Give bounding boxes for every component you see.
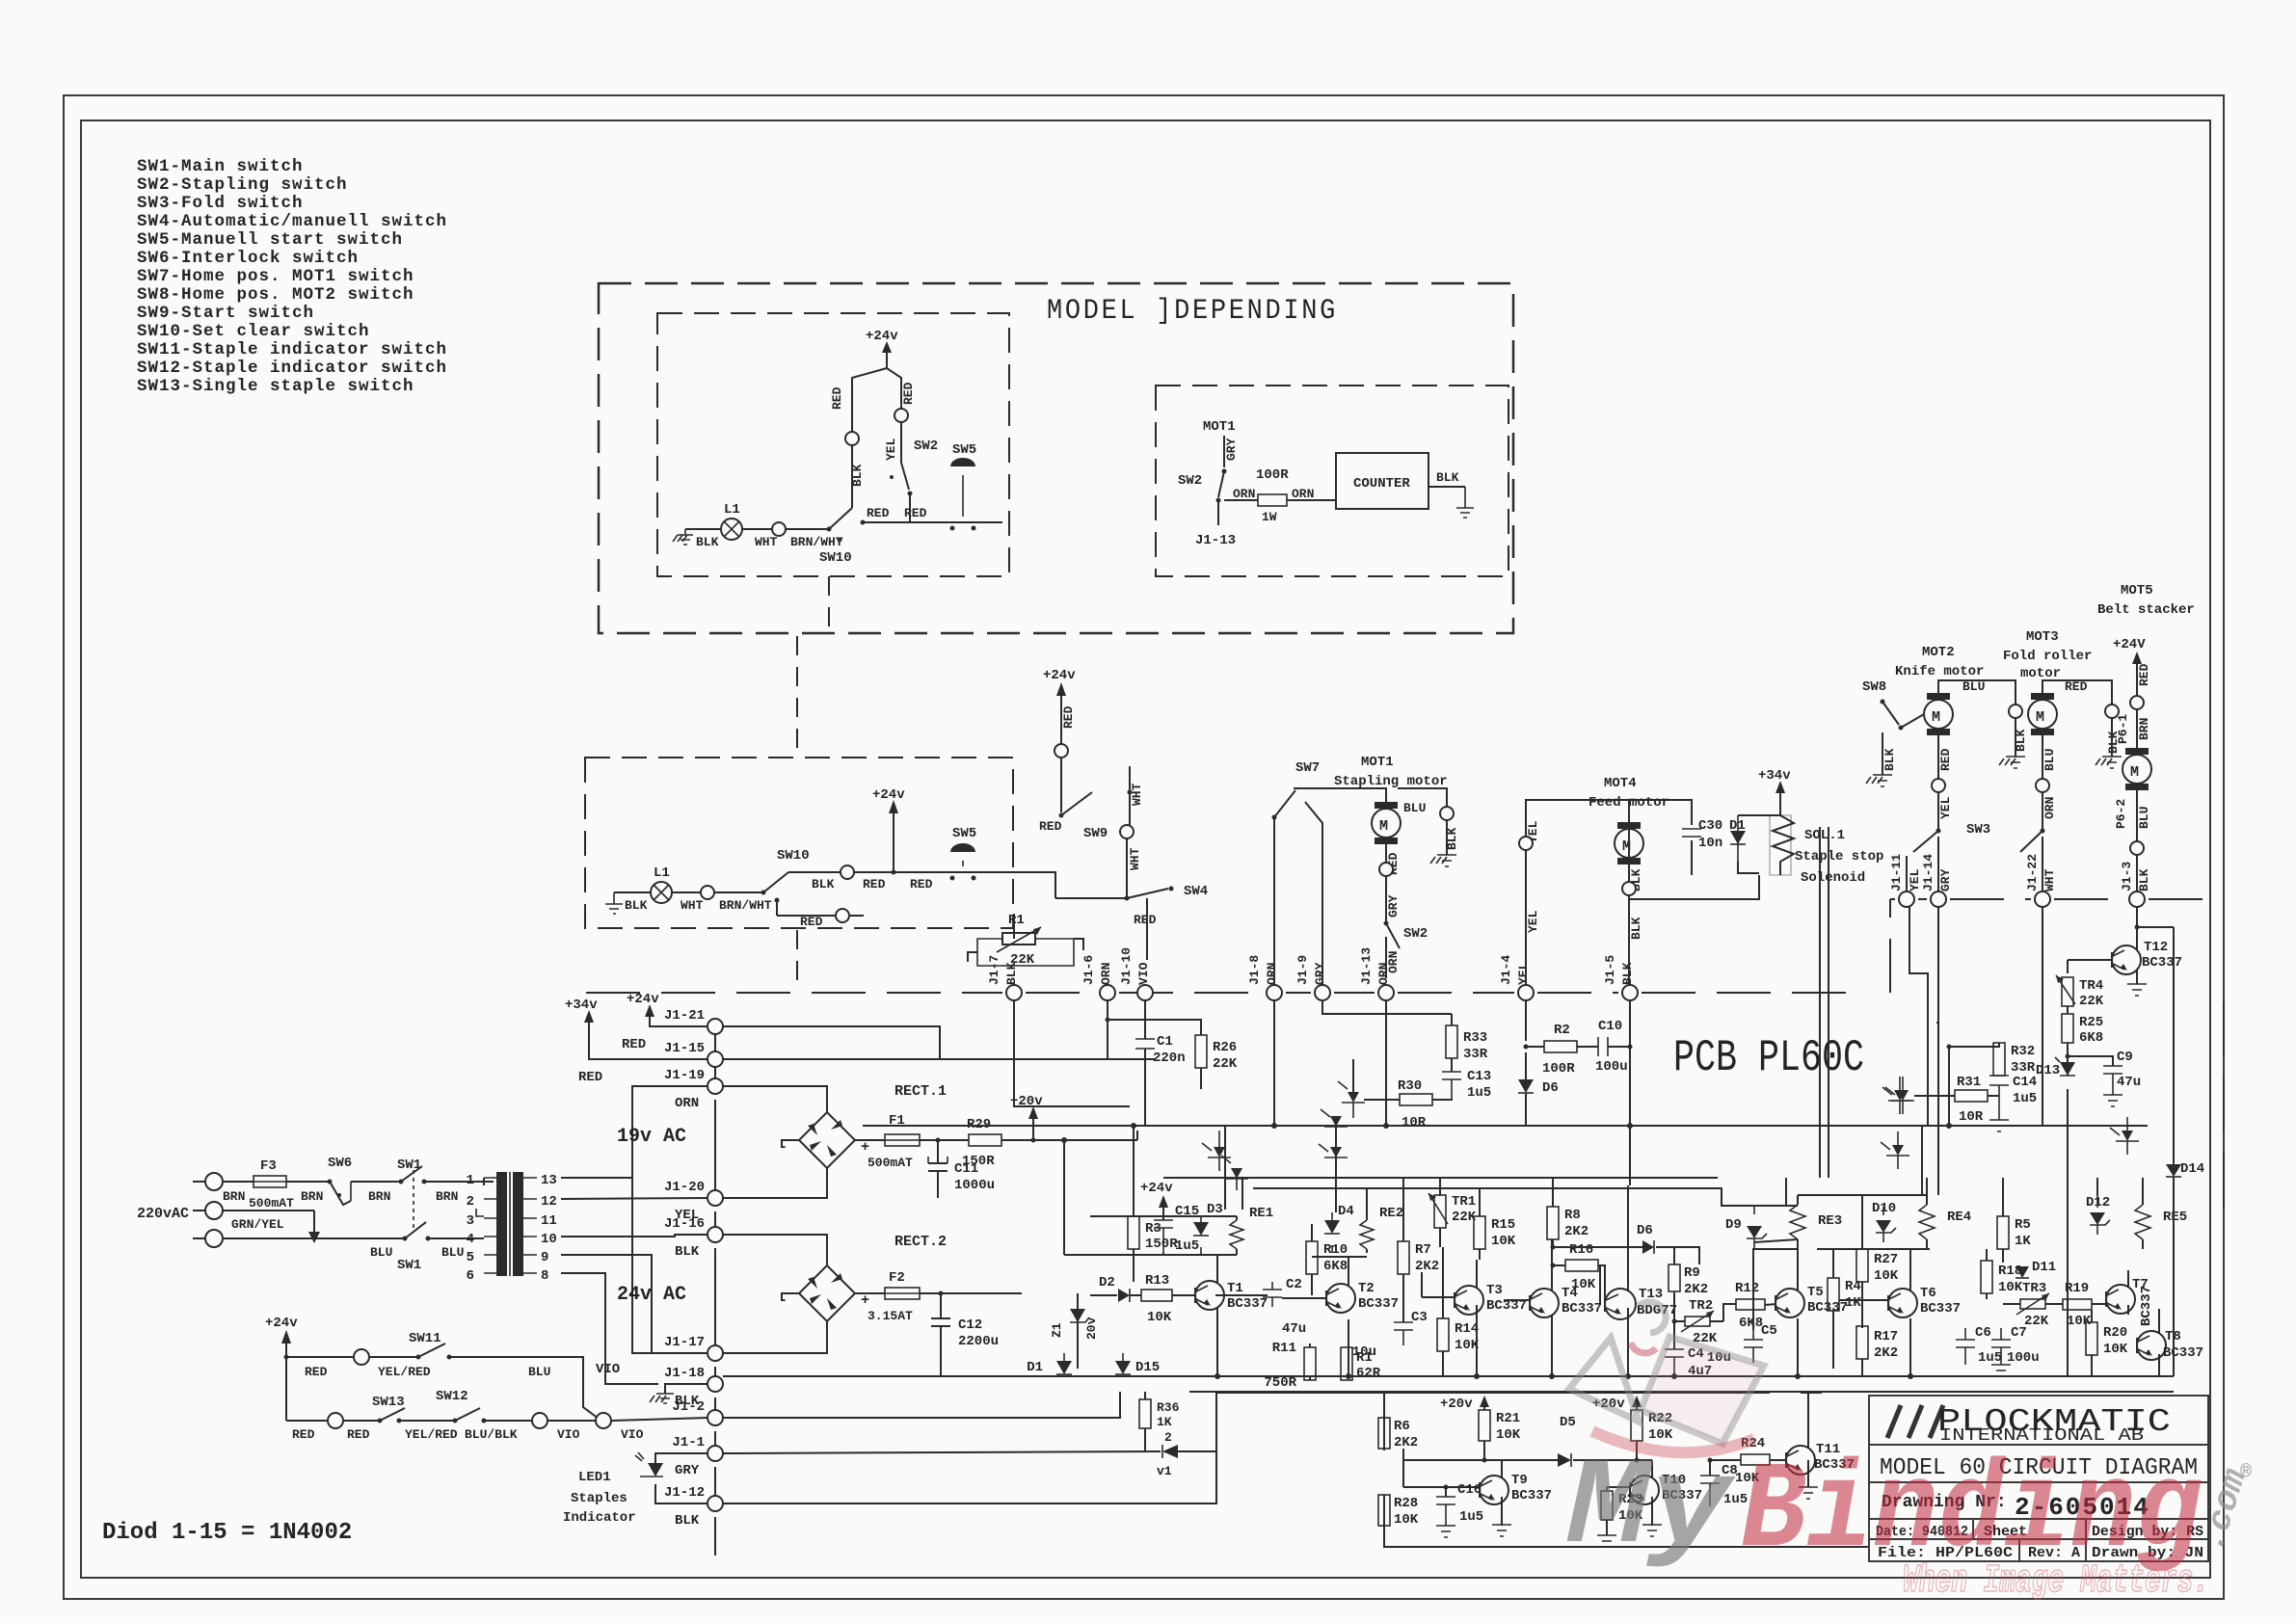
svg-text:C15: C15 xyxy=(1175,1204,1199,1219)
svg-text:C30: C30 xyxy=(1698,818,1722,834)
wire T6 base xyxy=(1817,1249,1930,1300)
title block frame xyxy=(1869,1396,2208,1561)
svg-text:1: 1 xyxy=(467,1173,474,1188)
solenoid SOL1 xyxy=(1758,768,1883,886)
variable resistor TR2 22K xyxy=(1672,1298,1724,1346)
svg-text:TR3: TR3 xyxy=(2022,1281,2046,1296)
svg-text:SW6: SW6 xyxy=(328,1156,352,1171)
thyristor pair xyxy=(1321,1059,1365,1140)
svg-text:47u: 47u xyxy=(2117,1075,2141,1090)
junction dots xyxy=(1061,1123,1952,1379)
switch SW1 lower xyxy=(397,1222,484,1273)
svg-text:BLU: BLU xyxy=(1962,679,1985,694)
wire to J1-2 xyxy=(611,1418,708,1421)
resistor R20 10K xyxy=(2086,1310,2128,1376)
wire xyxy=(351,1181,399,1183)
svg-text:100R: 100R xyxy=(1256,467,1289,483)
svg-text:YEL/RED: YEL/RED xyxy=(378,1365,431,1379)
plockmatic logo xyxy=(1887,1404,2171,1446)
wire BLU branch xyxy=(1938,680,2016,705)
ground T12 xyxy=(2127,984,2147,996)
svg-text:RECT.1: RECT.1 xyxy=(894,1083,947,1100)
resistor R8 2K2 xyxy=(1547,1178,1589,1247)
svg-text:D5: D5 xyxy=(1560,1415,1576,1430)
connector circle xyxy=(2009,705,2022,718)
svg-text:1u5: 1u5 xyxy=(1978,1350,2002,1366)
svg-text:GRY: GRY xyxy=(1386,894,1401,918)
variable resistor TR4 22K xyxy=(2056,975,2104,1009)
wire MOT1 bottom chain xyxy=(1385,844,1387,978)
MOT3 fold roller motor xyxy=(2003,629,2092,735)
svg-text:ORN: ORN xyxy=(1292,487,1314,501)
diode D6 horizontal xyxy=(1551,1223,1700,1264)
wire verticals right side xyxy=(1628,907,2042,1195)
resistor R24 10K xyxy=(1710,1436,1785,1486)
svg-text:R4: R4 xyxy=(1845,1279,1861,1294)
J1-20 connector xyxy=(664,1180,723,1223)
resistor R9 2K2 xyxy=(1669,1247,1708,1320)
diode D14 xyxy=(2166,927,2204,1376)
wire J1-8 vertical xyxy=(1273,1000,1275,1126)
svg-text:BLU: BLU xyxy=(2137,807,2151,829)
svg-text:11: 11 xyxy=(541,1213,557,1229)
bus segment upper xyxy=(1163,1178,1754,1206)
ground xyxy=(673,529,693,545)
wire row2 xyxy=(863,493,957,522)
svg-text:T12: T12 xyxy=(2144,940,2168,955)
svg-text:R26: R26 xyxy=(1213,1040,1237,1055)
PCB boundary dashed line xyxy=(586,992,1856,994)
J1-4 connector xyxy=(1499,955,1534,1000)
wire SW4 to J1-10 xyxy=(1146,898,1148,960)
svg-text:BRN: BRN xyxy=(436,1189,458,1204)
svg-text:GRY: GRY xyxy=(1313,962,1327,985)
svg-text:2200u: 2200u xyxy=(958,1334,999,1349)
wire xyxy=(920,1139,969,1141)
wire xyxy=(685,528,721,530)
svg-text:RE4: RE4 xyxy=(1947,1210,1971,1225)
diode D13 xyxy=(2036,1054,2075,1377)
wire xyxy=(742,528,772,530)
resistor R27 10K xyxy=(1856,1195,1899,1328)
svg-text:T6: T6 xyxy=(1920,1286,1936,1301)
switch SW10 xyxy=(761,848,810,903)
svg-text:ORN: ORN xyxy=(1265,963,1279,985)
winding loop pins 3 xyxy=(476,1209,484,1216)
+24v arrow PCB xyxy=(1140,1181,1173,1216)
svg-text:P6-2: P6-2 xyxy=(2114,799,2128,829)
svg-text:500mAT: 500mAT xyxy=(868,1156,913,1170)
zener Z1 20v xyxy=(1050,1293,1099,1369)
model depending outer dashed box xyxy=(599,283,1513,633)
svg-text:COUNTER: COUNTER xyxy=(1353,476,1410,492)
svg-text:RED: RED xyxy=(867,506,890,520)
svg-text:SW5: SW5 xyxy=(952,826,976,841)
svg-text:ORN: ORN xyxy=(2042,797,2057,819)
wire J1-10 tail xyxy=(1144,1051,1146,1126)
switch SW6 xyxy=(328,1156,353,1205)
connector circle xyxy=(1440,807,1454,820)
wire thyristor right3 xyxy=(2110,1117,2139,1155)
wire BLU xyxy=(449,1357,599,1419)
resistor 100R 1W xyxy=(1256,467,1289,524)
svg-text:R28: R28 xyxy=(1394,1496,1418,1511)
capacitor C7 100u xyxy=(1991,1325,2040,1366)
rectifier RECT.2 xyxy=(723,1234,947,1353)
svg-text:Belt stacker: Belt stacker xyxy=(2097,602,2195,618)
transformer secondary wires xyxy=(561,1178,708,1384)
svg-text:J1-21: J1-21 xyxy=(664,1008,705,1024)
svg-text:J1-13: J1-13 xyxy=(1359,947,1374,985)
diode D9 xyxy=(1725,1206,1767,1248)
svg-text:®: ® xyxy=(2240,1462,2252,1484)
svg-text:M: M xyxy=(2130,764,2139,781)
svg-text:SW8-Home pos. MOT2 switch: SW8-Home pos. MOT2 switch xyxy=(137,285,414,305)
svg-text:SW7: SW7 xyxy=(1295,760,1320,776)
svg-text:C10: C10 xyxy=(1598,1019,1622,1034)
R1 22K variable resistor xyxy=(977,913,1074,968)
wire WHT up xyxy=(1128,766,1145,825)
svg-text:BC337: BC337 xyxy=(1511,1488,1552,1503)
wire J1-12 route xyxy=(723,1451,1216,1503)
svg-text:+34v: +34v xyxy=(1758,768,1791,784)
junction xyxy=(892,870,896,875)
main bus xyxy=(863,1125,2148,1127)
wire xyxy=(2136,790,2138,891)
svg-text:RED: RED xyxy=(1134,913,1157,927)
svg-text:+24v: +24v xyxy=(872,787,905,803)
switch SW13 xyxy=(343,1395,405,1423)
svg-text:SW10-Set clear switch: SW10-Set clear switch xyxy=(137,322,370,341)
svg-text:R32: R32 xyxy=(2011,1044,2035,1059)
diode D2 xyxy=(1090,1275,1130,1302)
transistor T5 BC337 xyxy=(1775,1249,1848,1376)
wire dashed stub to box2 xyxy=(796,636,798,756)
svg-text:RED: RED xyxy=(830,386,844,410)
svg-text:SW10: SW10 xyxy=(777,848,810,864)
wire x656 vertical xyxy=(632,1086,708,1353)
svg-text:SW1-Main switch: SW1-Main switch xyxy=(137,157,304,176)
svg-text:SW12: SW12 xyxy=(436,1389,468,1404)
thyristor left of R31 xyxy=(1885,1077,1914,1114)
svg-text:MOT3: MOT3 xyxy=(2026,629,2059,645)
svg-text:D4: D4 xyxy=(1338,1204,1354,1219)
J1-3 connector xyxy=(2120,862,2151,907)
resistor R32 33R xyxy=(1947,1043,2036,1076)
svg-text:Knife motor: Knife motor xyxy=(1895,664,1984,679)
svg-text:+34v: +34v xyxy=(565,998,598,1013)
switch SW1 upper xyxy=(397,1157,453,1228)
resistor R10 6K8 xyxy=(1306,1224,1348,1295)
+24v column with SW9 xyxy=(1043,668,1076,812)
connector circle xyxy=(894,409,908,422)
svg-text:VIO: VIO xyxy=(1136,962,1151,985)
svg-text:R36: R36 xyxy=(1157,1400,1180,1415)
svg-text:1u5: 1u5 xyxy=(2013,1091,2037,1106)
svg-text:T4: T4 xyxy=(1562,1286,1578,1301)
svg-text:L1: L1 xyxy=(654,865,670,881)
svg-text:100R: 100R xyxy=(1542,1061,1575,1077)
wire xyxy=(1428,486,1465,488)
svg-text:T5: T5 xyxy=(1807,1285,1824,1300)
svg-text:Fold roller: Fold roller xyxy=(2003,649,2092,664)
svg-text:SW9: SW9 xyxy=(1083,826,1108,841)
svg-text:100u: 100u xyxy=(2007,1350,2040,1366)
relay RE5 xyxy=(2135,1195,2187,1249)
wire row2 xyxy=(286,1420,329,1422)
svg-text:ORN: ORN xyxy=(1233,487,1255,501)
svg-text:LED1: LED1 xyxy=(578,1470,611,1485)
J1-12 connector xyxy=(664,1485,723,1529)
wire BLU row xyxy=(223,1237,403,1239)
switch SW3 xyxy=(1907,822,1990,891)
svg-text:2K2: 2K2 xyxy=(1415,1259,1439,1274)
svg-text:6: 6 xyxy=(467,1268,474,1284)
svg-text:R25: R25 xyxy=(2079,1015,2103,1030)
svg-text:SOL.1: SOL.1 xyxy=(1804,828,1845,843)
svg-text:C12: C12 xyxy=(958,1317,982,1333)
svg-text:When Image Matters.: When Image Matters. xyxy=(1903,1559,2209,1604)
svg-text:BC337: BC337 xyxy=(2163,1345,2203,1361)
svg-text:10K: 10K xyxy=(1496,1427,1521,1443)
svg-text:RED: RED xyxy=(901,382,916,405)
lower section frame wires xyxy=(1217,1393,1870,1547)
svg-text:10K: 10K xyxy=(2067,1314,2092,1329)
svg-text:SW5-Manuell start switch: SW5-Manuell start switch xyxy=(137,230,403,250)
svg-text:RED: RED xyxy=(800,915,823,929)
wire stub below box A xyxy=(828,576,830,634)
J1-8 connector xyxy=(1247,955,1282,1000)
PCB boundary step xyxy=(1890,899,2207,993)
lamp L1 xyxy=(651,865,672,903)
svg-text:SW2: SW2 xyxy=(1178,473,1202,489)
svg-text:J1-13: J1-13 xyxy=(1195,533,1236,548)
wire D12 RE5 tops xyxy=(2097,1178,2143,1196)
LED1 staples indicator xyxy=(563,1452,708,1526)
diode D3 xyxy=(1193,1202,1223,1255)
wire thyristor row2 xyxy=(1319,1133,1348,1171)
variable resistor TR3 22K xyxy=(2003,1281,2059,1329)
wire J1-2 route xyxy=(723,1392,1120,1418)
connector circle xyxy=(841,865,854,879)
svg-text:BLK: BLK xyxy=(850,464,865,487)
svg-text:M: M xyxy=(1932,709,1940,726)
svg-text:J1-15: J1-15 xyxy=(664,1041,705,1056)
diode D1 xyxy=(1027,1353,1072,1375)
svg-text:10K: 10K xyxy=(1998,1280,2023,1295)
wire to transformer xyxy=(453,1178,494,1185)
svg-text:150R: 150R xyxy=(1145,1237,1178,1252)
+20v arrow right xyxy=(1592,1396,1642,1412)
capacitor C3 10u xyxy=(1352,1310,1428,1360)
switch SW10 xyxy=(819,508,852,566)
J1-16 connector xyxy=(664,1216,723,1260)
diode D4 xyxy=(1324,1204,1354,1253)
junction xyxy=(861,520,866,525)
svg-text:Z1: Z1 xyxy=(1050,1322,1064,1338)
svg-text:R8: R8 xyxy=(1564,1208,1581,1223)
fuse F3 500mAT xyxy=(249,1158,294,1211)
resistor R14 10K xyxy=(1437,1247,1480,1376)
svg-text:R31: R31 xyxy=(1957,1075,1981,1090)
svg-text:Stapling motor: Stapling motor xyxy=(1334,774,1448,789)
wire J1-14 tail xyxy=(1937,837,1939,891)
svg-text:C2: C2 xyxy=(1286,1277,1302,1292)
svg-text:1K: 1K xyxy=(2015,1234,2031,1249)
svg-text:J1-7: J1-7 xyxy=(987,955,1001,985)
resistor R36 1K xyxy=(1139,1392,1180,1451)
lamp L1 xyxy=(721,502,742,540)
svg-text:33R: 33R xyxy=(2011,1060,2036,1076)
diode D10 xyxy=(1872,1201,1896,1242)
svg-text:MOT2: MOT2 xyxy=(1922,645,1955,660)
relay RE2 xyxy=(1360,1206,1403,1253)
svg-text:R5: R5 xyxy=(2015,1217,2031,1233)
svg-text:T2: T2 xyxy=(1358,1281,1375,1296)
wire RE1 bottom row xyxy=(1064,1140,1237,1255)
motor MOT5 xyxy=(2122,709,2151,790)
svg-text:BLU: BLU xyxy=(370,1245,392,1260)
svg-text:J1-17: J1-17 xyxy=(664,1335,705,1350)
svg-text:GRY: GRY xyxy=(1938,868,1953,891)
diode D12 xyxy=(2086,1195,2110,1235)
svg-text:YEL: YEL xyxy=(1908,868,1922,891)
svg-text:YEL: YEL xyxy=(884,438,898,461)
svg-text:BLU/BLK: BLU/BLK xyxy=(465,1427,518,1442)
resistor R16 10K xyxy=(1551,1242,1601,1303)
svg-text:PCB PL60C: PCB PL60C xyxy=(1673,1033,1864,1083)
svg-text:SW10: SW10 xyxy=(819,550,852,566)
svg-text:GRY: GRY xyxy=(675,1463,700,1478)
svg-text:J1-19: J1-19 xyxy=(664,1068,705,1083)
svg-text:BRN: BRN xyxy=(223,1189,245,1204)
svg-text:J1-6: J1-6 xyxy=(1081,955,1096,985)
J1-19 connector xyxy=(664,1068,723,1111)
resistor R13 10K xyxy=(1130,1273,1195,1325)
svg-text:3.15AT: 3.15AT xyxy=(868,1309,913,1323)
wire BLK vertical xyxy=(851,445,853,508)
svg-text:3: 3 xyxy=(467,1213,474,1229)
wire T10 base xyxy=(1607,1486,1630,1488)
J1-22 connector xyxy=(2025,854,2057,907)
wire lower branch RED xyxy=(777,900,864,929)
+20v arrow xyxy=(1001,1094,1064,1143)
grounds on emitter bus xyxy=(1216,1375,1218,1377)
svg-text:4: 4 xyxy=(467,1232,474,1247)
capacitor C2 47u xyxy=(1263,1277,1306,1337)
resistor R4 1K xyxy=(1828,1249,1861,1369)
wire T2 base xyxy=(1215,1295,1326,1298)
svg-text:RED: RED xyxy=(347,1427,370,1442)
svg-text:Staple stop: Staple stop xyxy=(1795,849,1883,865)
connector circle xyxy=(2130,841,2144,855)
wire row1 xyxy=(286,1356,355,1358)
relay RE1 xyxy=(1230,1206,1273,1255)
svg-text:Staples: Staples xyxy=(571,1491,627,1506)
svg-text:RED: RED xyxy=(622,1037,646,1052)
svg-text:8: 8 xyxy=(541,1268,548,1284)
diode v1 xyxy=(723,1392,1216,1478)
svg-text:R15: R15 xyxy=(1491,1217,1515,1233)
connector circle xyxy=(354,1349,369,1365)
transistor T11 BC337 xyxy=(1786,1393,1855,1487)
capacitor C10 100u xyxy=(1577,1019,1633,1075)
wire main row xyxy=(788,871,841,873)
wire xyxy=(223,1181,254,1183)
+24v arrow J1-21 xyxy=(622,992,708,1052)
transformer pins left xyxy=(467,1173,496,1284)
resistor R29 150R xyxy=(962,1117,1001,1169)
wire xyxy=(614,891,651,893)
svg-text:R16: R16 xyxy=(1569,1242,1593,1258)
wire thyristor right2 xyxy=(1881,1131,1909,1169)
bottom bus xyxy=(723,1375,2174,1377)
wire RED branch xyxy=(2042,680,2112,705)
resistor R6 2K2 xyxy=(1378,1418,1418,1450)
svg-text:R17: R17 xyxy=(1874,1329,1898,1344)
svg-text:SW12-Staple indicator switch: SW12-Staple indicator switch xyxy=(137,359,447,378)
svg-text:WHT: WHT xyxy=(1128,847,1142,870)
connector circle xyxy=(845,432,859,445)
svg-text:BLK: BLK xyxy=(696,535,719,549)
svg-text:10K: 10K xyxy=(1455,1338,1480,1353)
svg-text:500mAT: 500mAT xyxy=(249,1196,294,1211)
resistor R3 150R xyxy=(1128,1126,1178,1282)
svg-text:BLK: BLK xyxy=(675,1244,700,1260)
svg-text:SW2: SW2 xyxy=(914,439,938,454)
svg-text:WHT: WHT xyxy=(2042,868,2057,891)
wire J1-13 vertical xyxy=(1385,1000,1387,1126)
capacitor C11 1000u xyxy=(928,1140,995,1198)
+24v arrow xyxy=(866,329,898,368)
svg-text:T3: T3 xyxy=(1486,1283,1503,1298)
wire GRN/YEL with ground arrow xyxy=(223,1211,320,1243)
svg-text:SW8: SW8 xyxy=(1862,679,1886,695)
svg-text:BLU: BLU xyxy=(441,1245,464,1260)
svg-text:SW13-Single staple switch: SW13-Single staple switch xyxy=(137,377,414,396)
svg-text:22K: 22K xyxy=(2079,994,2104,1009)
svg-text:D14: D14 xyxy=(2180,1161,2204,1177)
J1-10 connector xyxy=(1137,985,1153,1000)
svg-text:BC337: BC337 xyxy=(2139,1286,2154,1326)
svg-text:BLK: BLK xyxy=(1882,748,1897,771)
transistor T1 BC337 xyxy=(1195,1255,1268,1376)
resistor R17 2K2 xyxy=(1856,1326,1898,1376)
svg-text:BLK: BLK xyxy=(1620,962,1635,985)
svg-text:WHT: WHT xyxy=(755,535,778,549)
svg-text:RED: RED xyxy=(863,877,886,891)
svg-text:R21: R21 xyxy=(1496,1411,1520,1426)
switch SW9 xyxy=(1039,792,1108,841)
transistor T13 BDG77 xyxy=(1605,1185,1677,1376)
svg-text:Diod 1-15 = 1N4002: Diod 1-15 = 1N4002 xyxy=(102,1520,352,1546)
svg-text:+24v: +24v xyxy=(866,329,898,344)
J1-18 connector xyxy=(664,1366,723,1409)
svg-text:R30: R30 xyxy=(1398,1078,1422,1094)
switch SW2 xyxy=(1384,921,1428,949)
svg-text:BLU: BLU xyxy=(2042,749,2057,771)
svg-text:750R: 750R xyxy=(1264,1375,1296,1391)
fuse F2 3.15AT xyxy=(855,1270,920,1323)
svg-text:C13: C13 xyxy=(1467,1069,1491,1084)
svg-text:6K8: 6K8 xyxy=(2079,1030,2103,1046)
svg-text:P6-1: P6-1 xyxy=(2116,714,2130,744)
resistor R5 1K xyxy=(1997,1188,2031,1263)
svg-text:1u5: 1u5 xyxy=(1175,1238,1199,1254)
svg-text:R13: R13 xyxy=(1145,1273,1169,1289)
svg-text:12: 12 xyxy=(541,1194,557,1210)
resistor R11 750R xyxy=(1264,1341,1316,1391)
